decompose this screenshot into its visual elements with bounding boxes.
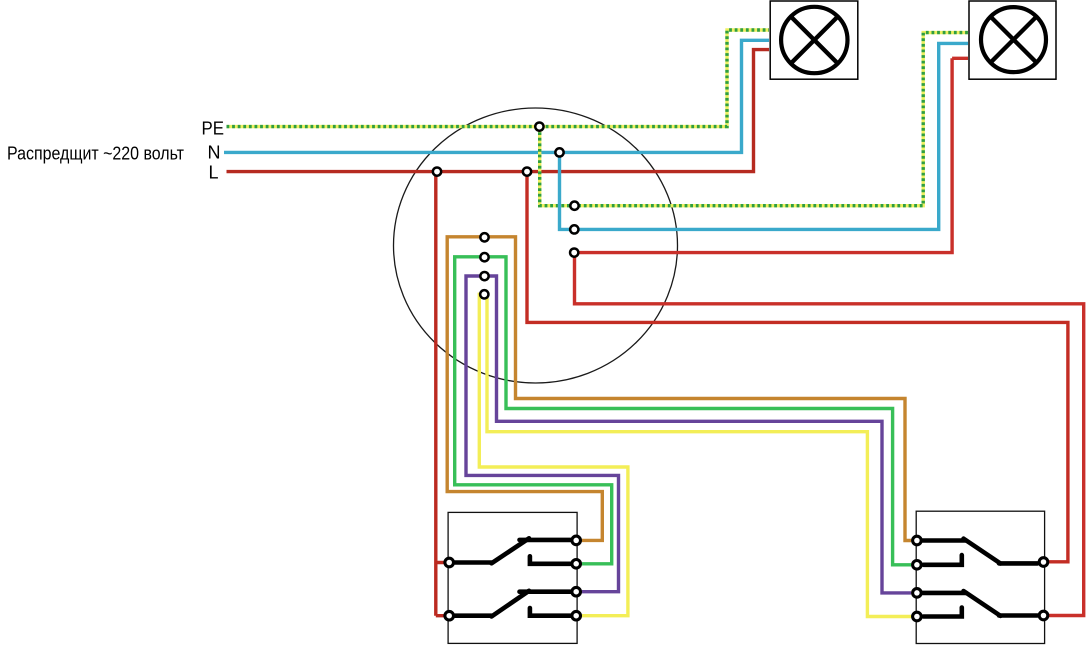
svg-text:PE: PE — [202, 119, 225, 139]
svg-text:L: L — [209, 163, 219, 183]
svg-text:N: N — [208, 143, 221, 163]
svg-text:Распредщит ~220 вольт: Распредщит ~220 вольт — [7, 144, 184, 164]
